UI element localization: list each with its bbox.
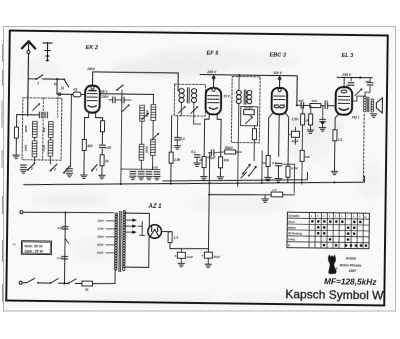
svg-text:11μF: 11μF [186,255,193,259]
osc coil L8 [145,139,156,155]
wire [43,78,64,80]
svg-text:0,1: 0,1 [180,137,185,141]
IFT2 primary coil [236,90,241,103]
grid coil L3 [42,121,53,137]
resistor 1M b [309,105,313,125]
ground [319,123,326,131]
IFT1 secondary coil [191,89,196,103]
svg-text:D: D [288,243,290,247]
switch 1 [35,75,43,86]
svg-text:7kΩ: 7kΩ [311,99,317,103]
ground [146,176,152,179]
AVC resistor 50k [214,146,236,154]
node heater [208,194,210,196]
node audio junction [296,104,298,106]
svg-text:Lang: Lang [288,237,295,241]
padding cap g4 [152,165,160,174]
svg-text:Schalter: Schalter [288,214,300,218]
svg-text:0,5F: 0,5F [57,226,63,230]
dashed grid tap [57,97,59,117]
svg-text:MF=128,5kHz: MF=128,5kHz [324,276,377,287]
band switch 2a [27,163,34,171]
screen resistor 10k [219,152,230,168]
padding cap g3 [146,172,152,174]
IFT1 trimmer B [191,106,198,113]
trimmer osc2 [142,112,149,119]
ground speaker [370,114,376,117]
wire IFT1 legs [181,103,194,116]
cathode resistor 420 [82,139,93,150]
osc switch [116,85,123,91]
heater fuse box [271,192,283,197]
detector wire [253,149,255,161]
ground [130,176,136,179]
svg-text:1: 1 [37,81,39,85]
svg-text:1,3: 1,3 [174,236,179,240]
coupling capacitor a2 [73,87,81,97]
trimmer EL3 [355,88,362,95]
svg-text:+: + [289,133,291,137]
svg-text:0,1: 0,1 [191,150,196,154]
cap 0,1F [57,256,68,260]
wire [265,166,272,180]
svg-text:1001: 1001 [24,144,28,151]
mains switch c [68,279,76,285]
wire coil bottoms [141,155,152,169]
output transformer primary [363,96,369,112]
EK2 top cap wire [93,72,179,91]
wire grid feed [57,79,73,94]
wire [101,132,103,144]
node [63,282,65,284]
screen resistor [100,121,104,132]
svg-text:0105: 0105 [42,144,46,151]
padding cap g2 [138,172,144,174]
cathode cap [272,161,281,166]
cap at switch [21,165,27,167]
ground [66,173,72,176]
svg-text:200pF: 200pF [243,106,253,110]
wire IFT1 secondary to EF5 area [194,116,201,124]
EL3 top wire [343,77,345,87]
wire IFT2 legs down [238,104,255,187]
wire [275,166,282,182]
EBC3 diode leg left [268,112,273,153]
HT winding to AZ1 plates [126,213,150,226]
wire EK2 plate to oscillator coils [100,94,154,104]
mains bottom wire [22,282,115,284]
cathode bypass cap [207,150,216,160]
mains terminal bottom [19,281,22,284]
ground [217,168,224,180]
ground [194,157,201,166]
svg-text:1 A: 1 A [272,188,276,192]
ground heater [262,195,268,203]
node [359,77,361,79]
interference cap leg [63,212,66,283]
speaker coil [371,99,374,112]
trimmer antenna [33,103,40,110]
svg-text:1,3: 1,3 [338,138,343,142]
coupling cap 4u [323,99,328,108]
wire antenna into box [17,114,39,116]
cathode resistor 1,3 [333,130,343,142]
ground [20,170,26,173]
tube EL3 [336,87,353,115]
svg-text:15 V: 15 V [223,94,230,98]
svg-text:10k: 10k [305,155,310,159]
resistor left leg [14,127,18,138]
antenna coil unit dashed box [22,98,62,161]
wire down from grid junction [70,94,73,166]
coil box divider [42,98,45,160]
svg-text:420: 420 [86,144,93,148]
ground filter cap 2 [205,258,212,267]
svg-text:0,05: 0,05 [105,146,111,150]
EF5 cathode leg [204,113,209,152]
ground [138,176,144,179]
wire [101,149,103,155]
EL3 supply wire [337,76,372,78]
tap labels [96,219,105,255]
svg-text:6530: 6530 [145,146,149,153]
IF transformer 2 dashed box [231,76,260,142]
svg-text:50F: 50F [298,99,303,103]
svg-text:EBC 3: EBC 3 [269,52,286,58]
IFT2 resistor 0,3 [248,114,256,140]
earth electrode symbol [43,42,52,61]
resistor 2n [100,155,109,166]
svg-text:110 V: 110 V [273,71,282,75]
wire transformer top [365,86,370,96]
svg-text:0,1F: 0,1F [57,256,63,260]
transformer core [119,211,121,271]
ground left leg [13,155,19,158]
rail junction dots [120,179,336,188]
resistor 0,2M [262,153,270,167]
svg-text:M.Verlang: M.Verlang [288,231,302,235]
ground filter cap 1 [178,258,185,266]
svg-text:1k: 1k [199,158,203,162]
antenna symbol [21,41,35,116]
osc padder cap [113,97,115,103]
coupling cap 50pF [297,99,304,108]
svg-text:702 t: 702 t [352,116,360,120]
grid coil L4 [42,140,53,156]
wire [236,151,241,153]
svg-text:50kΩ: 50kΩ [225,146,233,150]
AVC return wire [282,164,295,193]
svg-text:Netz: 50 W: Netz: 50 W [24,244,43,248]
svg-text:2,5V: 2,5V [291,117,299,121]
osc coil L7 [139,144,144,160]
power rating box [21,241,51,255]
ground [154,176,160,179]
speaker dashed link [362,114,365,182]
wire to EL3 grid [328,105,336,107]
svg-text:11: 11 [61,86,65,90]
svg-text:85 V: 85 V [101,90,108,94]
node circle [58,93,61,96]
svg-text:AZ 1: AZ 1 [147,204,162,210]
EF5 top cap wire [213,75,215,88]
IFT2 inner box [241,107,258,126]
svg-text:4μ: 4μ [323,99,328,103]
resistor 7k [310,99,321,108]
grid resistor 0,1M [301,105,310,125]
IFT1 primary coil [179,88,184,102]
wire coils to switches [33,157,35,164]
power transformer secondary winding [122,210,125,271]
heater wire [209,194,294,196]
volume pot arrows [241,164,257,179]
svg-text:7: 7 [95,168,97,172]
B+ riser [208,153,209,252]
trimmer osc3 [152,133,159,140]
cap 0,5F [57,226,68,230]
mains switch b [50,279,58,285]
svg-text:EF 5: EF 5 [206,51,219,57]
svg-text:+: + [201,254,203,258]
mains top wire [23,212,114,214]
screen leg [217,113,222,152]
bottom wire osc [121,168,160,171]
filter cap 1 [174,249,193,259]
wire [287,177,289,183]
power transformer primary winding [114,213,117,271]
switch 7 [91,165,97,173]
wire [333,141,335,171]
schematic border frame [6,31,388,306]
mains switch a [26,278,38,283]
band switch 2c [63,166,69,173]
wire antenna to band switch [28,78,36,80]
switch 11 [61,78,69,90]
svg-text:235 V: 235 V [206,70,217,74]
svg-text:50μF: 50μF [213,255,220,259]
ground [174,140,181,149]
svg-text:240V: 240V [96,251,105,255]
cap tone [320,106,326,124]
transformer to mains bottom link [114,271,116,284]
dropper resistor 1,5k [169,116,181,184]
wire IFT2 primary to B+ [238,74,240,91]
wire EK2 right pin down [96,112,103,120]
osc coil L5 [140,105,145,121]
cap at switch c [67,169,73,171]
fuse 1A [82,281,93,292]
HT winding bottom to AZ1 [125,237,149,268]
svg-text:EL 3: EL 3 [341,53,354,59]
EBC3 grid leg resistor 0,5M [284,113,299,178]
svg-text:1,5k: 1,5k [174,158,180,162]
svg-text:1Ω: 1Ω [262,161,267,165]
node top [64,211,66,213]
mains terminal top [20,211,23,214]
EBC3 top cap wire [279,76,281,89]
svg-text:1997: 1997 [349,269,358,273]
osc coil L6 [145,104,156,120]
svg-text:0,1: 0,1 [272,161,277,165]
EBC3 cathode leg [278,115,281,156]
tube EBC3 [272,88,288,115]
switch position table [287,212,369,248]
wire osc to rail [120,169,122,184]
wire [109,99,131,101]
svg-text:290V: 290V [86,67,95,71]
tube EF5 [206,88,222,115]
svg-text:Retro-Phonia: Retro-Phonia [340,263,361,267]
filter cap 2 50uF [201,252,220,259]
EL3 cathode leg [335,114,339,130]
IFT1 trimmer A [178,106,185,113]
antenna coil L1 [24,121,37,137]
filament bracket [138,221,145,235]
cap 0,1 right [191,150,200,157]
screen cap 0,05 [99,145,111,150]
trimmer osc [122,104,129,111]
node EF5 top [212,76,215,79]
table dots [311,220,368,247]
wire [321,105,324,107]
wire EK2 left pin down [84,112,88,140]
svg-text:220V: 220V [96,243,105,247]
AZ1 output wire [161,231,165,233]
svg-text:∼: ∼ [12,242,16,247]
svg-text:Kapsch Symbol W: Kapsch Symbol W [285,287,384,302]
wire coil joins [142,120,154,144]
wire coil column left [34,137,36,140]
series caps on antenna wire [39,112,41,118]
wire IFT2 to rail [261,151,263,183]
wire [15,138,17,154]
wire 20uF [294,127,296,144]
ground [201,168,208,180]
wire [304,104,310,106]
speaker cone [376,98,382,113]
svg-text:2010: 2010 [24,125,28,133]
svg-text:Mittel: Mittel [288,225,296,229]
filament tap arrows [126,219,136,234]
ground screen [99,175,105,178]
padding cap g1 [130,171,136,173]
svg-text:+: + [174,254,176,258]
svg-text:100V: 100V [101,95,109,99]
B+ bus line [163,171,308,183]
cat logo [328,254,337,274]
svg-text:1a: 1a [85,288,89,292]
svg-text:0,05: 0,05 [152,165,158,169]
svg-text:235 V: 235 V [341,73,352,77]
svg-text:2: 2 [53,168,56,172]
ground EL3 [331,171,337,174]
chassis ground rail [24,172,365,189]
cathode resistor 1k [199,152,206,168]
wire to filter caps [170,243,209,250]
svg-text:0,1μF: 0,1μF [207,156,216,160]
B+ top wire [200,75,297,106]
wire EL3 plate to transformer [352,96,365,101]
svg-text:2: 2 [30,167,33,171]
IFT1 core [187,88,189,103]
200pF cap box [243,106,254,115]
wire coil column right [50,138,52,140]
svg-text:302: 302 [42,127,46,132]
IF transformer 1 dashed box [174,84,205,116]
wire [101,166,103,175]
svg-text:Analia: Analia [345,256,356,260]
osc padder cap 2 [122,97,124,103]
svg-text:EK 2: EK 2 [86,45,99,51]
ground EK2 cathode [81,175,87,178]
cap 2n at EL3 [345,77,354,87]
svg-text:Kurz: Kurz [288,220,295,224]
svg-text:a2: a2 [73,87,77,91]
svg-text:20μF: 20μF [290,139,298,143]
IFT2 trimmer [246,116,253,123]
svg-text:Spär: 35 W: Spär: 35 W [24,249,43,253]
wire left osc leg [121,90,122,169]
rectifier tube AZ1 [148,225,162,239]
antenna coil L2 [24,141,37,157]
svg-text:2n: 2n [104,159,109,163]
band switch 2b [50,164,57,172]
table header numbers [311,214,368,219]
table row labels [288,214,302,248]
electrolytic 20uF [289,131,300,143]
cap 10F [365,78,373,85]
wire [83,151,85,175]
decoupling cap 0,1 [175,116,186,141]
wire left leg [16,115,18,128]
wire to EK2 grid [81,93,85,95]
node EBC3 top [278,77,281,80]
primary taps [106,221,115,253]
smoothing resistor 1,3 [166,232,179,243]
svg-text:10F: 10F [365,80,370,84]
resistor 10k lower [300,125,311,184]
ground [307,125,314,133]
IFT2 secondary coil [247,90,252,103]
switch small [65,238,69,243]
svg-text:10k: 10k [224,158,230,162]
node 10 [54,78,59,86]
IFT2 core [244,90,246,104]
tube EK2 [85,86,100,113]
